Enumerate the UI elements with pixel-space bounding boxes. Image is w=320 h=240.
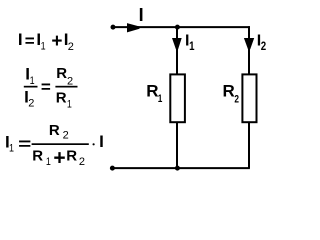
svg-text:R: R (49, 122, 60, 139)
svg-text:=: = (41, 77, 51, 96)
svg-text:R: R (32, 148, 43, 165)
svg-text:=: = (18, 135, 31, 154)
svg-text:2: 2 (68, 41, 74, 53)
svg-text:1: 1 (30, 75, 35, 87)
svg-text:1: 1 (46, 156, 51, 168)
svg-text:1: 1 (158, 93, 163, 105)
svg-text:+: + (51, 31, 62, 52)
svg-text:1: 1 (41, 41, 46, 53)
svg-text:I: I (99, 132, 104, 151)
svg-text:R: R (56, 89, 67, 106)
svg-text:2: 2 (79, 156, 85, 168)
svg-text:I: I (18, 30, 23, 49)
svg-text:2: 2 (28, 98, 34, 110)
svg-text:2: 2 (63, 130, 69, 142)
svg-text:2: 2 (67, 75, 73, 87)
svg-text:1: 1 (189, 39, 195, 53)
svg-text:1: 1 (67, 99, 72, 111)
svg-text:1: 1 (9, 142, 14, 154)
svg-text:=: = (25, 32, 35, 51)
svg-text:R: R (223, 81, 235, 100)
svg-text:R: R (66, 148, 77, 165)
svg-text:+: + (53, 146, 65, 169)
svg-text:R: R (56, 65, 67, 82)
svg-text:R: R (146, 81, 158, 100)
svg-text:2: 2 (261, 39, 267, 53)
svg-text:I: I (139, 5, 144, 25)
svg-text:2: 2 (234, 94, 239, 106)
